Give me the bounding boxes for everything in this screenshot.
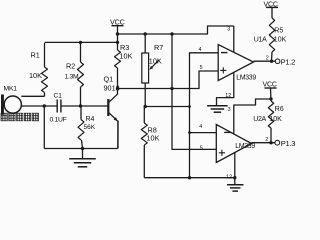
node U2A+ branch junction — [170, 32, 173, 35]
svg-text:P1.3: P1.3 — [281, 139, 295, 148]
pin 2 output wire U2A — [252, 142, 275, 144]
microphone MK1 — [1, 95, 4, 115]
resistor R8 — [143, 107, 145, 124]
svg-text:2: 2 — [266, 55, 269, 61]
svg-text:U1A: U1A — [254, 36, 267, 43]
wire U2A minus arm — [190, 132, 217, 134]
node rail end junction — [233, 176, 236, 179]
wiper arrow R7 — [151, 60, 160, 69]
svg-text:MK1: MK1 — [4, 85, 18, 92]
op-amp U2A — [216, 125, 251, 163]
pin 3 wire U1A (VCC) — [233, 26, 235, 52]
power VCC top — [112, 25, 124, 27]
node R7 top junction — [144, 32, 147, 35]
transistor Q1 — [107, 99, 109, 116]
node A junction mic/C1/ground-rail — [43, 104, 46, 107]
node VCC/pin3 junction — [269, 97, 272, 100]
svg-text:4: 4 — [199, 124, 202, 130]
ground U1A — [207, 105, 228, 107]
node reference/rail junction — [188, 176, 191, 179]
wire mic lower terminal to C1 — [21, 105, 57, 107]
node ref-T junction — [188, 105, 191, 108]
svg-text:R5: R5 — [274, 27, 283, 34]
pin 12 wire U1A (gnd) — [217, 72, 234, 105]
capacitor C1 — [56, 100, 58, 113]
wire C1 to Q1 base — [61, 105, 108, 107]
svg-text:3: 3 — [228, 107, 231, 113]
svg-text:10K: 10K — [274, 36, 287, 43]
node collector junction — [116, 87, 119, 90]
svg-text:10K: 10K — [29, 71, 42, 80]
svg-text:5: 5 — [200, 145, 203, 151]
potentiometer R7 — [144, 34, 146, 53]
ground U2A — [234, 178, 236, 185]
wire VCC stem — [117, 26, 119, 50]
svg-text:VCC: VCC — [264, 2, 278, 9]
svg-text:5: 5 — [200, 65, 203, 71]
node reference divider junction — [144, 105, 147, 108]
wire U2A+ feed from bus — [172, 34, 217, 149]
resistor R5 — [271, 7, 273, 18]
node top-left bus junction — [116, 41, 119, 44]
resistor R1 — [44, 43, 46, 67]
terminal P1.3 — [275, 140, 280, 145]
node VCC bus junction — [116, 32, 119, 35]
wire reference node to comparator minus line — [145, 106, 189, 108]
svg-text:R2: R2 — [66, 61, 75, 70]
ground left — [82, 149, 84, 159]
wire collector bus to comparators — [118, 71, 219, 89]
wire top bus y=43 — [45, 41, 118, 43]
svg-text:P1.2: P1.2 — [281, 57, 295, 66]
svg-text:10K: 10K — [269, 116, 282, 123]
svg-text:LM339: LM339 — [235, 143, 255, 150]
wire VCC to R6 — [270, 88, 273, 101]
resistor R2 — [79, 41, 82, 44]
label electret microphone (CJK blobs) — [1, 113, 7, 121]
terminal P1.2 — [275, 59, 280, 64]
svg-text:Q1: Q1 — [104, 75, 114, 84]
svg-text:56K: 56K — [84, 124, 96, 131]
pin 12 wire U2A (gnd) — [234, 153, 236, 178]
svg-text:VCC: VCC — [263, 81, 277, 88]
wire mic upper terminal to R1 — [21, 95, 44, 97]
bottom rail left (emitter/ground) — [44, 148, 118, 150]
power VCC lower right — [265, 87, 277, 89]
svg-text:1.3M: 1.3M — [65, 74, 80, 81]
node R6/output junction — [269, 141, 272, 144]
svg-text:LM339: LM339 — [236, 75, 256, 82]
svg-text:12: 12 — [226, 175, 232, 181]
wire node A down to bottom rail — [43, 106, 45, 149]
resistor R4 — [80, 106, 82, 120]
node collector/U2A+ cross junction — [170, 87, 173, 90]
svg-text:10K: 10K — [149, 57, 162, 66]
svg-text:VCC: VCC — [110, 18, 125, 27]
svg-text:R1: R1 — [31, 51, 40, 60]
svg-text:R6: R6 — [275, 106, 284, 113]
power VCC upper right — [266, 6, 278, 8]
node R4 ground junction — [81, 147, 84, 150]
node U2A minus junction — [188, 131, 191, 134]
wire comparator minus reference line — [190, 53, 219, 178]
node R5/output junction — [270, 60, 273, 63]
svg-text:3: 3 — [227, 26, 230, 32]
svg-text:4: 4 — [199, 47, 202, 53]
svg-text:0.1UF: 0.1UF — [50, 117, 67, 124]
svg-text:U2A: U2A — [253, 116, 266, 123]
bottom rail right — [144, 177, 235, 179]
wire VCC bus y=34 to right — [118, 26, 234, 34]
resistor R3 — [115, 50, 121, 68]
svg-text:R7: R7 — [154, 43, 163, 52]
svg-text:C1: C1 — [54, 93, 63, 100]
pin 2 output wire U1A — [254, 60, 276, 62]
svg-text:10K: 10K — [147, 134, 160, 143]
svg-text:R4: R4 — [86, 116, 95, 123]
svg-text:10K: 10K — [120, 52, 133, 61]
resistor R6 — [268, 101, 273, 128]
op-amp U1A — [218, 45, 253, 81]
pin 3 wire U2A (VCC) — [234, 99, 271, 134]
svg-text:12: 12 — [225, 93, 231, 99]
svg-text:2: 2 — [265, 137, 268, 143]
